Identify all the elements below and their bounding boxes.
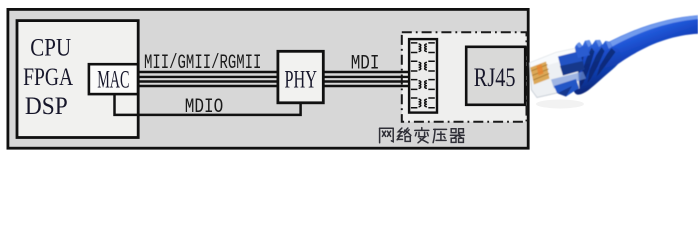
svg-text:MDIO: MDIO — [185, 96, 224, 119]
svg-text:DSP: DSP — [25, 93, 68, 120]
svg-text:RJ45: RJ45 — [474, 63, 516, 92]
svg-text:MDI: MDI — [351, 53, 380, 76]
svg-text:FPGA: FPGA — [23, 64, 73, 91]
svg-text:MII/GMII/RGMII: MII/GMII/RGMII — [144, 52, 261, 75]
svg-text:CPU: CPU — [30, 35, 71, 62]
svg-text:MAC: MAC — [97, 66, 129, 93]
svg-text:PHY: PHY — [285, 67, 318, 94]
